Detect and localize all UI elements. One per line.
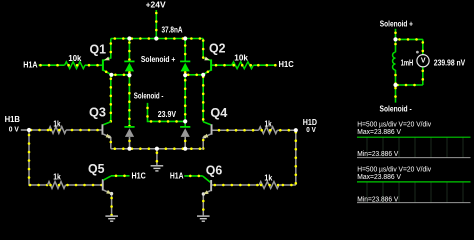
diode D4 — [180, 121, 190, 148]
wire ground stub center — [156, 149, 158, 166]
svg-text:1k: 1k — [53, 173, 61, 182]
diode D1 — [124, 39, 134, 76]
resistor 10k right — [232, 53, 254, 68]
ground Q6 emitter — [197, 216, 210, 221]
node label H1C (top right) — [279, 60, 294, 69]
svg-text:H1C: H1C — [279, 60, 294, 69]
node solenoid top junction — [393, 37, 397, 41]
svg-text:1k: 1k — [53, 119, 61, 128]
svg-text:H1C: H1C — [132, 172, 146, 181]
svg-text:Q3: Q3 — [89, 105, 106, 119]
wire D2/D4 column upper — [184, 75, 186, 121]
node rail-ground junction — [155, 147, 159, 151]
svg-text:0 V: 0 V — [306, 125, 316, 134]
wire H1D column down — [295, 130, 297, 185]
resistor 10k left — [65, 54, 85, 69]
wire D2 to Q2 emitter — [185, 74, 203, 76]
oscilloscope panel 2 — [357, 164, 471, 203]
svg-text:V: V — [421, 57, 426, 64]
node label H1A (at Q6) — [170, 171, 184, 180]
wire 1k to H1D column — [279, 184, 296, 186]
node label H1A (top left) — [23, 61, 38, 70]
ground center — [151, 166, 164, 171]
voltage label 23.9V — [158, 110, 177, 119]
node Solenoid- junction — [183, 119, 187, 123]
svg-text:Solenoid -: Solenoid - — [134, 92, 164, 101]
svg-text:0 V: 0 V — [9, 124, 19, 133]
node rail-D2 junction — [183, 36, 187, 40]
wire voltmeter lower lead — [422, 67, 424, 85]
transistor label Q4 — [210, 106, 227, 120]
svg-text:Max=23.886 V: Max=23.886 V — [357, 172, 402, 181]
svg-text:1k: 1k — [265, 120, 273, 129]
svg-text:Q2: Q2 — [209, 42, 226, 56]
svg-text:10k: 10k — [234, 53, 248, 62]
resistor 1k Q6-base — [259, 173, 279, 188]
oscilloscope panel 1 — [357, 119, 471, 158]
wire 10k to H1C — [253, 64, 276, 66]
transistor Q3 — [66, 122, 112, 149]
resistor 1k Q3-base — [49, 119, 66, 133]
svg-text:Solenoid +: Solenoid + — [380, 20, 413, 29]
transistor label Q3 — [89, 105, 106, 119]
node rail-supply junction — [154, 36, 158, 40]
voltmeter V1 — [417, 55, 429, 67]
svg-text:Solenoid -: Solenoid - — [380, 104, 412, 113]
wire voltmeter upper lead — [422, 39, 424, 54]
transistor Q5 — [102, 176, 130, 216]
svg-text:H1A: H1A — [23, 61, 38, 70]
node Q1 emitter junction — [109, 73, 113, 77]
node label H1D — [303, 118, 317, 127]
node +24V supply label — [146, 0, 167, 9]
svg-text:H1A: H1A — [170, 171, 184, 180]
wire 1k to Q5 base — [66, 184, 102, 186]
wire Q6 base — [212, 184, 259, 186]
wire loop top — [396, 38, 423, 40]
svg-text:1k: 1k — [264, 173, 272, 182]
node D2 anode junction — [183, 73, 187, 77]
wire Q1/Q3 column — [110, 75, 112, 122]
wire H1B node to 1k — [29, 129, 49, 131]
transistor Q6 — [184, 176, 212, 216]
svg-text:Max=23.886 V: Max=23.886 V — [357, 127, 402, 136]
wire Q1 emitter to D1 — [111, 74, 129, 76]
node label Solenoid - (solenoid) — [380, 104, 412, 113]
wire +24V feed — [155, 10, 157, 39]
wire H1B column down — [29, 130, 48, 185]
svg-text:Q6: Q6 — [206, 164, 223, 178]
transistor Q2 — [203, 39, 232, 75]
node label Solenoid + (bridge) — [141, 55, 176, 64]
wire top rail — [111, 38, 203, 40]
diode D3 — [124, 126, 134, 149]
wire bottom rail — [111, 148, 204, 150]
current label 37.8nA — [162, 26, 183, 35]
value label 1mH — [401, 58, 414, 67]
node rail-D4 junction — [183, 147, 187, 151]
wire 1k to H1D node — [277, 129, 296, 131]
transistor Q4 — [202, 122, 259, 149]
wire H1A to 10k — [39, 64, 65, 66]
wire Solenoid- to D4 node — [148, 103, 186, 122]
voltage label 0 V (H1B) — [9, 124, 19, 133]
node label H1C (at Q5) — [132, 172, 146, 181]
node H1D junction — [294, 128, 298, 132]
node Q2 emitter junction — [201, 73, 205, 77]
voltage label 0 V (H1D) — [306, 125, 316, 134]
wire H1B lead — [21, 129, 29, 131]
svg-text:H1B: H1B — [5, 115, 21, 124]
wire Solenoid- stub — [395, 85, 397, 103]
svg-text:Q4: Q4 — [210, 106, 227, 120]
node label Solenoid + (solenoid) — [380, 20, 413, 29]
reading label 239.98 nV — [434, 58, 466, 67]
svg-text:23.9V: 23.9V — [158, 110, 177, 119]
wire Q2/Q4 column — [202, 75, 204, 122]
svg-text:Solenoid +: Solenoid + — [141, 55, 176, 64]
transistor Q1 — [85, 39, 112, 75]
svg-text:1mH: 1mH — [401, 58, 414, 67]
wire Solenoid+ stub — [395, 29, 397, 40]
node solenoid bottom junction — [393, 83, 397, 87]
svg-text:37.8nA: 37.8nA — [162, 26, 183, 35]
voltmeter polarity dot — [416, 51, 419, 54]
diode D2 — [180, 39, 190, 76]
svg-text:Q5: Q5 — [88, 162, 105, 176]
transistor label Q6 — [206, 164, 223, 178]
resistor 1k Q5-base — [48, 173, 66, 189]
wire D1/D3 column — [128, 75, 130, 126]
resistor 1k Q4-base — [259, 120, 278, 134]
svg-text:10k: 10k — [68, 54, 82, 63]
node D1 anode junction — [127, 73, 131, 77]
svg-text:239.98 nV: 239.98 nV — [434, 58, 466, 67]
transistor label Q2 — [209, 42, 226, 56]
transistor label Q1 — [90, 42, 107, 56]
svg-text:Min=23.886 V: Min=23.886 V — [357, 194, 399, 203]
ground Q5 emitter — [105, 216, 118, 221]
svg-text:Q1: Q1 — [90, 42, 107, 56]
svg-text:Min=23.886 V: Min=23.886 V — [357, 149, 399, 158]
node label H1B — [5, 115, 21, 124]
node rail-D1 junction — [127, 36, 131, 40]
svg-text:+24V: +24V — [146, 0, 167, 9]
node rail-D3 junction — [127, 147, 131, 151]
wire loop bottom — [396, 84, 423, 86]
node label Solenoid - (bridge) — [134, 92, 164, 101]
transistor label Q5 — [88, 162, 105, 176]
inductor L1 1mH — [393, 39, 396, 85]
node H1B junction — [27, 128, 31, 132]
